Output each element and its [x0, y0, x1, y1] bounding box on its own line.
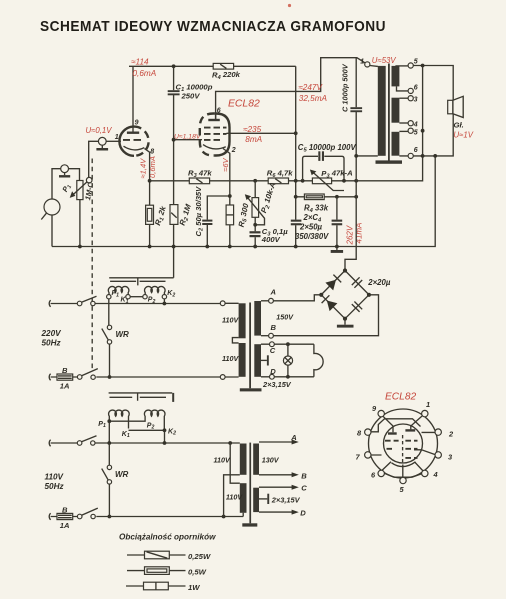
- pentode plate: [208, 119, 220, 121]
- wire primary parallel jogs: [224, 443, 244, 517]
- junction K2: [163, 428, 167, 432]
- rail junction dots: [78, 245, 82, 249]
- svg-text:1A: 1A: [60, 521, 70, 530]
- wire triode anode drop: [132, 66, 134, 131]
- svg-text:250V: 250V: [181, 92, 201, 101]
- wire C1 branch / pentode grid leak column: [173, 66, 175, 277]
- socket pin 5: [400, 477, 406, 483]
- svg-text:220V: 220V: [41, 329, 63, 338]
- svg-text:1: 1: [360, 58, 364, 65]
- mains input prong top 110V: [49, 440, 50, 447]
- screen end tick: [172, 393, 174, 402]
- transformer T1 primary upper 110V: [239, 303, 246, 338]
- wire speaker link top: [413, 66, 453, 101]
- svg-text:400V: 400V: [261, 235, 281, 244]
- wire C4b branch: [336, 197, 338, 247]
- socket pin 9: [378, 410, 384, 416]
- svg-text:110V: 110V: [222, 354, 239, 363]
- svg-text:2×3,15V: 2×3,15V: [271, 496, 301, 505]
- svg-text:B: B: [271, 323, 277, 332]
- pentode g2 dashes: [204, 133, 227, 135]
- socket internal grid dashes: [385, 441, 418, 458]
- svg-text:110V: 110V: [45, 473, 65, 482]
- svg-text:Gł.: Gł.: [454, 120, 464, 129]
- terminal wiper: [86, 177, 92, 183]
- wire pentode grid lead: [174, 139, 202, 141]
- svg-text:5: 5: [414, 130, 418, 137]
- ground symbol under rail: [336, 247, 338, 251]
- svg-text:ECL82: ECL82: [228, 99, 260, 110]
- svg-text:6: 6: [414, 147, 418, 154]
- wire triode anode rail node: [129, 65, 296, 67]
- svg-text:WR: WR: [116, 330, 130, 339]
- wire D lamp bottom: [261, 376, 314, 378]
- OPT secondary bar 5-6: [392, 66, 400, 87]
- svg-text:U≈0,1V: U≈0,1V: [86, 126, 113, 135]
- junction R4 left: [294, 195, 298, 199]
- speaker Gl: [448, 100, 453, 114]
- svg-text:50Hz: 50Hz: [42, 339, 62, 348]
- terminal grid input: [98, 137, 106, 145]
- svg-text:C5 10000p 100V: C5 10000p 100V: [298, 143, 357, 154]
- resistor R3 47k: [189, 178, 209, 184]
- junction C1/R2/pentode grid: [172, 138, 176, 142]
- terminal 4: [408, 121, 413, 126]
- T1 secondary 150V: [254, 301, 261, 336]
- resistor R6 4,7k: [268, 178, 288, 184]
- fuse B 1A 110V: [57, 513, 73, 519]
- junction cathode/R3: [148, 179, 152, 183]
- junction cathode/C2: [228, 194, 232, 198]
- junction WR bottom 110V: [108, 515, 112, 519]
- mains input prong bottom 110V: [49, 513, 50, 520]
- terminal 5b: [408, 128, 413, 133]
- svg-text:2: 2: [448, 430, 454, 439]
- terminal C: [270, 342, 275, 347]
- svg-text:6: 6: [414, 84, 418, 91]
- svg-text:32,5mA: 32,5mA: [299, 94, 328, 103]
- socket pin 2: [435, 429, 441, 435]
- resistor R4 220k: [213, 63, 233, 69]
- lamp: [286, 342, 290, 346]
- triode plate: [127, 132, 139, 134]
- svg-text:2×3,15V: 2×3,15V: [262, 380, 292, 389]
- wire K1-P2 link: [130, 296, 143, 298]
- scan speck: [288, 4, 291, 7]
- capacitor C2 plates: [202, 220, 212, 222]
- choke screen top unit: [109, 278, 173, 286]
- svg-text:8: 8: [150, 149, 154, 156]
- wire bridge left to A: [273, 295, 321, 301]
- terminal P2 choke: [143, 295, 147, 299]
- switch WR 110V: [107, 465, 111, 469]
- wire pentode anode up and over: [216, 58, 365, 119]
- choke L1 110V: [109, 410, 130, 428]
- bridge vertex dots: [343, 268, 347, 272]
- wire pentode cathode column: [223, 149, 230, 247]
- T1 core: [249, 303, 251, 389]
- potentiometer P2 10k-A: [252, 198, 259, 218]
- svg-text:4: 4: [413, 121, 418, 128]
- svg-text:B: B: [62, 505, 68, 514]
- wire mains bottom 220V: [51, 376, 239, 378]
- ground at bridge bottom: [344, 319, 346, 325]
- resistor R1 2k: [146, 205, 154, 224]
- mains input prong top 220V: [49, 300, 50, 307]
- OPT secondary bar 3-4: [392, 98, 400, 123]
- svg-text:1A: 1A: [60, 381, 70, 390]
- legend resistor 0,5W: [127, 570, 186, 572]
- terminal D: [270, 374, 275, 379]
- legend resistor 0,25W: [127, 554, 186, 556]
- svg-text:5: 5: [414, 59, 418, 66]
- svg-text:U≈1V: U≈1V: [454, 131, 474, 140]
- junction P1: [107, 419, 111, 423]
- wire B+ vertical from R4 to screen/filter: [295, 66, 297, 246]
- terminal 1 OPT: [365, 62, 370, 67]
- svg-text:2: 2: [231, 147, 236, 154]
- socket cathode arc: [392, 462, 416, 467]
- choke L2 220V: [145, 286, 166, 295]
- svg-text:≈6V: ≈6V: [221, 157, 230, 171]
- switch contact bottom 110V: [77, 514, 82, 519]
- T2 core ground: [242, 523, 257, 526]
- svg-text:110V: 110V: [214, 455, 231, 464]
- switch contact bottom 220V: [77, 375, 82, 380]
- junction dots top wire 110V: [107, 441, 111, 445]
- terminal A: [269, 298, 274, 303]
- svg-text:350/380V: 350/380V: [295, 232, 329, 241]
- resistor R2 1M: [170, 205, 178, 225]
- wire P1 bottom: [79, 200, 81, 247]
- diode D1: [325, 275, 341, 291]
- wire A to secondary: [261, 300, 269, 302]
- terminal 6: [408, 88, 413, 93]
- socket outer circle: [369, 409, 438, 478]
- junction R6/B+ column: [294, 179, 298, 183]
- wire 262V column: [345, 156, 378, 271]
- wire A arrow: [259, 441, 295, 443]
- potentiometer P3 47k-A: [312, 178, 331, 184]
- wire mains bottom 110V: [51, 516, 244, 518]
- output transformer primary bar: [378, 66, 386, 156]
- wire mains top 110V: [51, 442, 240, 444]
- svg-text:4: 4: [433, 470, 438, 479]
- choke L1 220V: [108, 286, 129, 295]
- svg-text:U≈53V: U≈53V: [372, 56, 397, 65]
- svg-text:A: A: [270, 288, 276, 297]
- capacitor C3 plates: [250, 231, 261, 233]
- svg-text:130V: 130V: [262, 456, 280, 465]
- capacitor C4b plates: [332, 220, 343, 222]
- terminal shield: [61, 165, 69, 173]
- switch contact top 110V: [77, 441, 82, 446]
- svg-text:0,6mA: 0,6mA: [133, 69, 157, 78]
- wire B arrow: [259, 474, 295, 476]
- svg-text:≈114: ≈114: [131, 58, 149, 67]
- capacitor C1 plates: [168, 90, 180, 92]
- wire pentode g2 lead: [227, 132, 296, 134]
- svg-text:50Hz: 50Hz: [45, 482, 65, 491]
- wire R3-R6 feedback line: [150, 66, 423, 181]
- pentode g3 dashes: [204, 127, 227, 129]
- svg-text:0,5W: 0,5W: [188, 567, 207, 576]
- svg-text:C: C: [301, 484, 307, 493]
- svg-text:150V: 150V: [276, 312, 294, 321]
- socket pin 1: [422, 410, 428, 416]
- triode cathode arc: [124, 146, 145, 150]
- resistor R4 33k: [304, 194, 324, 200]
- terminal 5: [408, 63, 413, 68]
- svg-text:Obciążalność oporników: Obciążalność oporników: [119, 533, 216, 542]
- wire terminal 5b stub: [399, 130, 408, 132]
- junction C4b top: [335, 195, 339, 199]
- wire bridge right to B: [273, 295, 378, 336]
- svg-text:1W: 1W: [188, 583, 200, 592]
- junction parallel jog: [222, 515, 226, 519]
- wire C arrow: [259, 486, 295, 488]
- svg-text:110V: 110V: [222, 315, 239, 324]
- junction R4 right: [354, 195, 358, 199]
- svg-text:8mA: 8mA: [245, 135, 262, 144]
- terminal B: [269, 333, 274, 338]
- svg-text:A: A: [290, 433, 296, 442]
- socket wiring paths: [368, 414, 438, 480]
- T1 core ground: [240, 388, 262, 391]
- svg-text:U≈1,18V: U≈1,18V: [174, 133, 202, 140]
- transformer T2 primary lower 110V: [240, 483, 247, 513]
- svg-text:2×20µ: 2×20µ: [367, 278, 391, 287]
- svg-text:B: B: [62, 366, 68, 375]
- wire terminal 4 stub: [399, 122, 408, 124]
- socket center divider dashes: [402, 435, 404, 463]
- primary series jog: [232, 338, 238, 343]
- svg-text:WR: WR: [115, 470, 129, 479]
- socket internal left plate: [388, 432, 397, 434]
- P3 wiper arrow: [313, 172, 345, 191]
- socket pin 8: [365, 429, 371, 435]
- socket inner circle: [384, 424, 423, 463]
- switch WR 220V: [107, 325, 111, 329]
- wire shield terminal to P1 top: [69, 169, 80, 181]
- wire terminal 3 stub: [399, 97, 408, 99]
- terminal P1 choke: [107, 295, 111, 299]
- svg-text:≈247V: ≈247V: [298, 83, 323, 92]
- ground chassis at grid terminal: [101, 145, 103, 148]
- T2 core: [249, 443, 251, 524]
- svg-text:≈1,4V: ≈1,4V: [138, 158, 147, 179]
- T1 secondary 6,3V: [254, 344, 261, 377]
- wire P1-P2 link 110V: [109, 420, 145, 444]
- P1 wiper arrow: [72, 182, 87, 196]
- pentode cathode arc: [203, 145, 226, 149]
- capacitor C5 plates: [318, 151, 320, 161]
- svg-text:9: 9: [135, 120, 139, 127]
- legend resistor 1W: [126, 585, 186, 587]
- svg-text:2×50µ: 2×50µ: [299, 222, 323, 231]
- svg-text:6: 6: [217, 107, 221, 114]
- socket internal right plate: [405, 429, 415, 431]
- junction C5 loop left: [301, 179, 305, 183]
- svg-text:D: D: [270, 367, 276, 376]
- capacitor C6 plates: [350, 107, 362, 109]
- wire triode grid lead: [106, 140, 121, 142]
- junction speaker top: [421, 64, 425, 68]
- svg-text:B: B: [301, 471, 307, 480]
- core ground bar: [376, 160, 403, 163]
- potentiometer P1 1M-C: [77, 181, 83, 200]
- terminal 3: [408, 96, 413, 101]
- resistor R5 300: [226, 205, 234, 225]
- wire 5-5 link: [421, 129, 425, 133]
- wire terminal1 to primary: [370, 65, 378, 68]
- wire sec top to terminal 5: [395, 65, 408, 67]
- wire C6 branch: [355, 58, 357, 156]
- svg-text:C 1000p 500V: C 1000p 500V: [341, 63, 350, 112]
- wire K2 drop: [163, 299, 165, 304]
- socket pin 6: [378, 470, 384, 476]
- wire C lamp top: [261, 343, 314, 345]
- fuse B 1A 220V: [57, 374, 73, 380]
- diode D2: [322, 295, 338, 311]
- junction P2 bottom: [253, 223, 257, 227]
- wire P1 down to WR: [108, 299, 110, 325]
- wire K1-K2 link 110V: [129, 429, 165, 444]
- P2 wiper arrow: [247, 197, 264, 225]
- terminal K1 choke: [126, 295, 130, 299]
- 6,3V center tap: [261, 359, 267, 361]
- switch contact top 220V: [77, 301, 82, 306]
- wire mains top 220V: [51, 302, 239, 304]
- tube V1b pentode envelope: [215, 114, 230, 156]
- junction C1/rail: [172, 64, 176, 68]
- OPT secondary bar 5-6 lower: [392, 132, 400, 156]
- wire grid to volume wiper: [89, 141, 99, 177]
- ground rail: [52, 156, 435, 247]
- svg-text:1: 1: [426, 400, 430, 409]
- T2 6,3V center tap: [259, 498, 267, 500]
- wire down to WR 110V: [108, 443, 110, 465]
- pentode g1 dashes: [204, 139, 220, 141]
- wire terminal 6b / bottom link: [399, 114, 453, 156]
- capacitor 2x20µ upper plates: [352, 277, 362, 288]
- pickup cartridge: [44, 199, 60, 215]
- wire sec1 bottom to terminal 6: [397, 86, 409, 91]
- svg-text:≈235: ≈235: [243, 125, 262, 134]
- svg-text:1: 1: [115, 134, 119, 141]
- junction feedback/262V column: [354, 179, 358, 183]
- wire pickup bottom: [51, 215, 53, 247]
- wire C2 branch: [207, 196, 230, 247]
- svg-text:ECL82: ECL82: [385, 392, 416, 403]
- wire pickup top to shield terminal: [52, 169, 61, 199]
- choke L2 110V: [144, 410, 165, 428]
- wire D arrow: [259, 511, 295, 513]
- svg-text:D: D: [300, 509, 306, 518]
- lamp enclosure right side: [314, 344, 323, 377]
- wire triode cathode: [145, 149, 150, 247]
- bridge doubler arms: [321, 271, 369, 319]
- transformer T2 primary upper 110V: [240, 444, 247, 475]
- svg-text:110V: 110V: [226, 492, 243, 501]
- svg-text:0,6mA: 0,6mA: [148, 156, 157, 178]
- wire B to secondary: [261, 335, 269, 337]
- junction P2 top: [253, 179, 257, 183]
- junction C5 loop right: [342, 179, 346, 183]
- capacitor 2x20µ lower plates: [352, 302, 362, 312]
- T2 secondary 130V: [253, 444, 259, 475]
- ground chassis at shield terminal: [64, 173, 66, 176]
- choke screen bottom unit: [109, 393, 173, 401]
- terminal transformer primary top: [220, 301, 225, 306]
- svg-text:262V: 262V: [345, 225, 354, 245]
- svg-text:C: C: [270, 346, 276, 355]
- triode grid dashes: [123, 139, 141, 141]
- output transformer core: [388, 64, 390, 161]
- capacitor C4a plates: [291, 220, 302, 222]
- wire R4-33k branch: [296, 196, 357, 198]
- socket pin 3: [435, 452, 441, 458]
- mains input prong bottom 220V: [49, 374, 50, 381]
- svg-text:3: 3: [414, 96, 418, 103]
- terminal 6b: [408, 153, 413, 158]
- transformer T1 primary lower 110V: [239, 343, 246, 377]
- svg-text:0,25W: 0,25W: [188, 552, 211, 561]
- socket pin 7: [365, 452, 371, 458]
- svg-text:SCHEMAT IDEOWY WZMACNIACZA GRA: SCHEMAT IDEOWY WZMACNIACZA GRAMOFONU: [40, 18, 386, 35]
- T2 secondary 6,3V: [253, 488, 259, 512]
- tube V1a triode envelope: [119, 127, 148, 156]
- wire C5 loop: [303, 156, 344, 181]
- terminal transformer primary bottom: [220, 375, 225, 380]
- chassis boundary dashed: [91, 159, 93, 371]
- socket pin 4: [422, 470, 428, 476]
- terminal K2 choke: [162, 295, 166, 299]
- junction WR bottom: [108, 375, 112, 379]
